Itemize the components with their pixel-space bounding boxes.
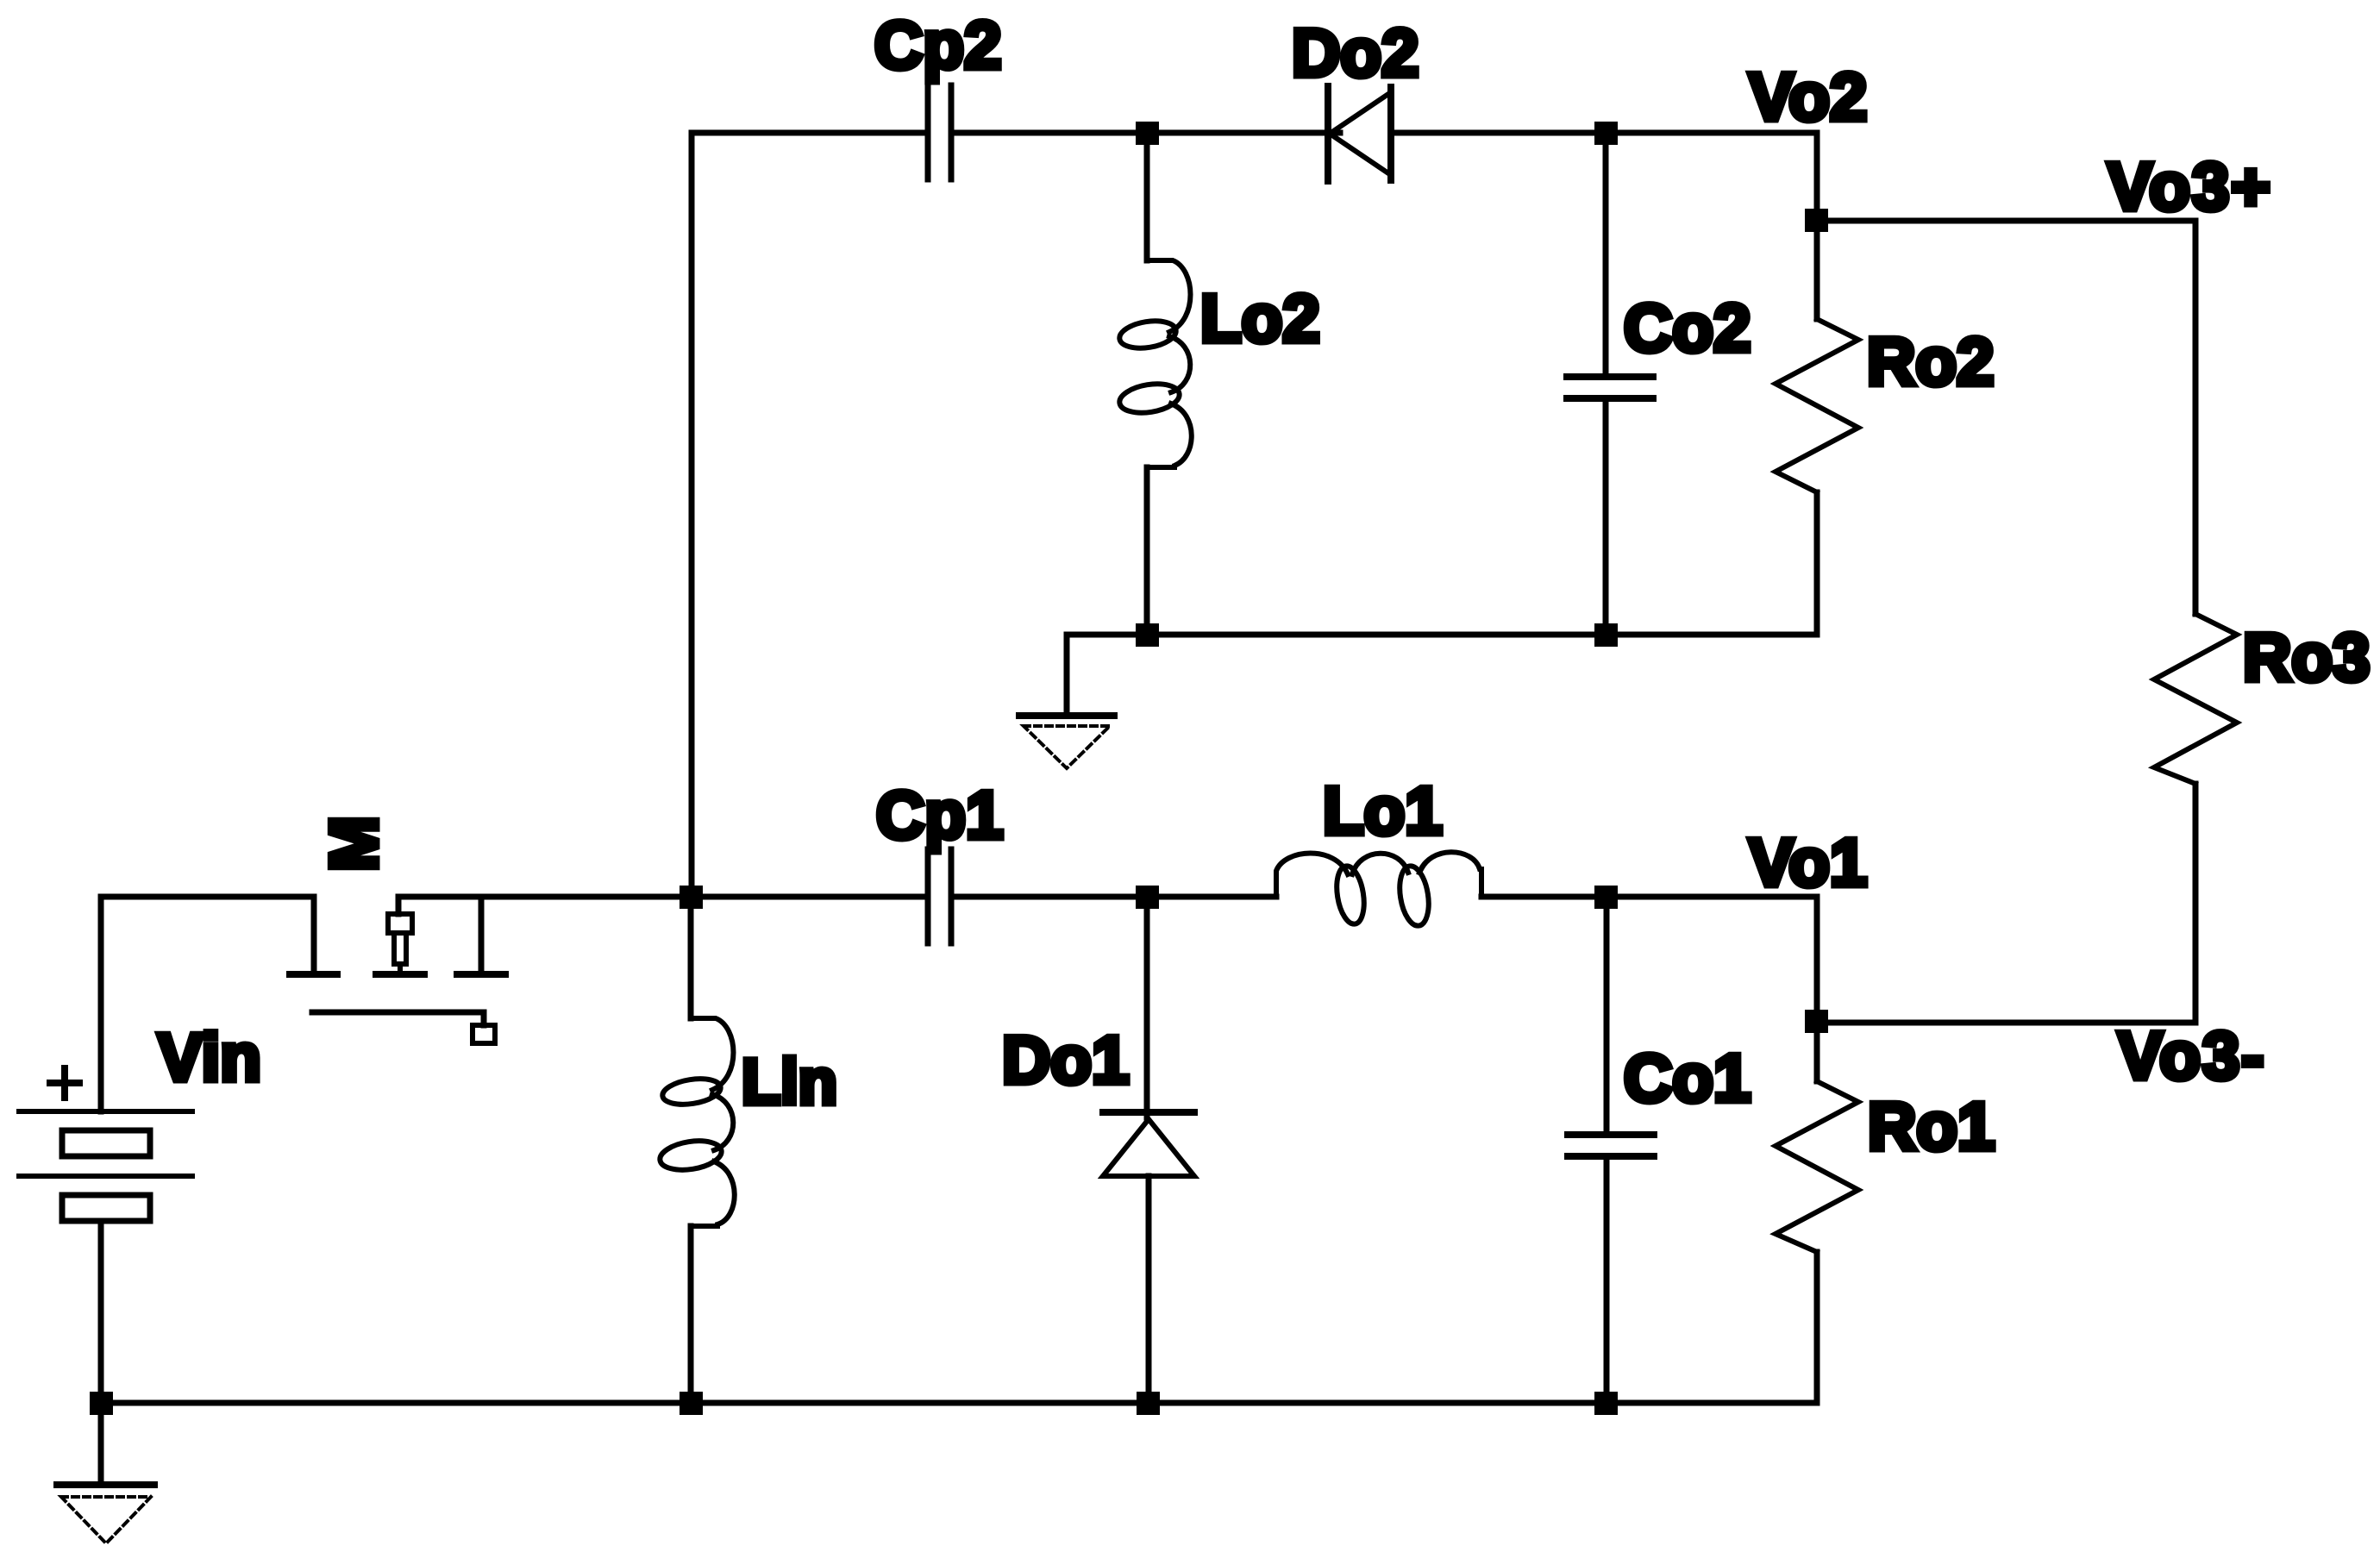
capacitor Cp1 — [928, 849, 951, 943]
node junction at Do1 top — [1136, 886, 1159, 909]
wire top rail right segment — [1391, 130, 1817, 136]
svg-text:Do2: Do2 — [1292, 15, 1419, 91]
svg-text:Ro2: Ro2 — [1867, 323, 1994, 399]
svg-text:Do1: Do1 — [1002, 1022, 1129, 1098]
node junction Lo2 bottom — [1136, 623, 1159, 647]
wire lower rail Lo1 to Vo1 corner — [1481, 897, 1817, 1081]
node junction Vin bottom — [90, 1392, 113, 1415]
node junction at Co1 top — [1594, 886, 1618, 909]
node junction Lin bottom — [680, 1392, 703, 1415]
wire top rail middle segment — [951, 130, 1340, 136]
transistor M (MOSFET) — [290, 897, 505, 1043]
svg-text:Cp1: Cp1 — [876, 777, 1003, 853]
capacitor Cp2 — [928, 85, 951, 179]
svg-text:Co1: Co1 — [1624, 1040, 1751, 1116]
node junction Co1 bottom — [1594, 1392, 1618, 1415]
node junction Do1 bottom — [1137, 1392, 1160, 1415]
voltage source Vin battery — [19, 1111, 192, 1403]
node junction Co2 bottom — [1594, 623, 1618, 647]
node junction Vo2/Vo3+ — [1805, 209, 1828, 232]
wire lower rail right — [398, 894, 928, 900]
svg-text:Co2: Co2 — [1624, 290, 1751, 366]
svg-text:Lo2: Lo2 — [1200, 280, 1320, 356]
wire Ro3 bottom to Vo3- rail — [1817, 784, 2195, 1023]
svg-text:Lo1: Lo1 — [1323, 773, 1443, 848]
wire mid rail — [1067, 632, 1817, 638]
wire Vo2 corner down — [1814, 133, 1820, 319]
wire Vo3+ rail — [1817, 221, 2195, 614]
wire lower rail Cp1 to corner — [951, 894, 1276, 900]
svg-text:Vo3-: Vo3- — [2118, 1017, 2265, 1093]
node junction Vo1/Vo3- — [1805, 1010, 1828, 1033]
ground mid stub — [1064, 635, 1070, 716]
inductor Lo1 — [1276, 852, 1481, 928]
svg-text:Ro3: Ro3 — [2243, 619, 2370, 695]
label + of Vin — [50, 1068, 79, 1098]
node junction at Co2 top — [1594, 122, 1618, 145]
resistor Ro1 — [1776, 1081, 1858, 1403]
diode Do2 — [1328, 86, 1391, 181]
svg-text:Lin: Lin — [742, 1046, 837, 1117]
ground left stub — [98, 1403, 104, 1485]
inductor Lo2 — [1118, 145, 1192, 635]
resistor Ro3 — [2154, 614, 2237, 784]
svg-text:Vo3+: Vo3+ — [2108, 148, 2272, 224]
wire top rail left segment — [692, 133, 928, 893]
svg-text:Vo1: Vo1 — [1749, 824, 1867, 900]
ground left symbol — [57, 1485, 154, 1543]
svg-text:M: M — [316, 816, 391, 872]
resistor Ro2 — [1776, 232, 1858, 635]
node junction at Lin top — [680, 886, 703, 909]
capacitor Co2 — [1567, 145, 1653, 635]
node junction at Lo2 top — [1136, 122, 1159, 145]
capacitor Co1 — [1568, 909, 1654, 1403]
svg-text:Vin: Vin — [158, 1019, 261, 1095]
svg-text:Vo2: Vo2 — [1749, 59, 1867, 135]
svg-text:Cp2: Cp2 — [874, 7, 1001, 83]
inductor Lin — [658, 909, 735, 1403]
svg-text:Ro1: Ro1 — [1868, 1088, 1995, 1164]
ground mid symbol — [1019, 716, 1114, 768]
wire bottom rail — [101, 1400, 1817, 1406]
diode Do1 — [1103, 909, 1194, 1403]
wire lower rail left — [101, 897, 314, 1111]
